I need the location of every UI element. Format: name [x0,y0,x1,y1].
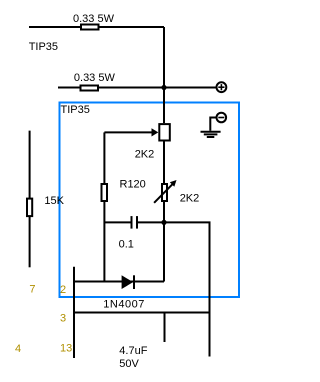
svg-text:7: 7 [29,284,35,296]
svg-text:TIP35: TIP35 [29,41,58,53]
svg-text:TIP35: TIP35 [61,104,90,116]
svg-text:4: 4 [15,343,21,355]
svg-text:15K: 15K [44,195,64,207]
svg-text:4.7uF: 4.7uF [119,345,147,357]
svg-text:0.1: 0.1 [119,239,134,251]
svg-text:3: 3 [60,313,66,325]
svg-text:R120: R120 [120,179,146,191]
svg-text:0.33 5W: 0.33 5W [73,13,115,25]
svg-text:2K2: 2K2 [135,149,155,161]
svg-text:2K2: 2K2 [180,193,200,205]
svg-text:1N4007: 1N4007 [103,299,145,311]
svg-text:50V: 50V [119,358,139,370]
svg-text:2: 2 [60,284,66,296]
svg-text:13: 13 [60,343,72,355]
svg-text:0.33 5W: 0.33 5W [74,72,116,84]
